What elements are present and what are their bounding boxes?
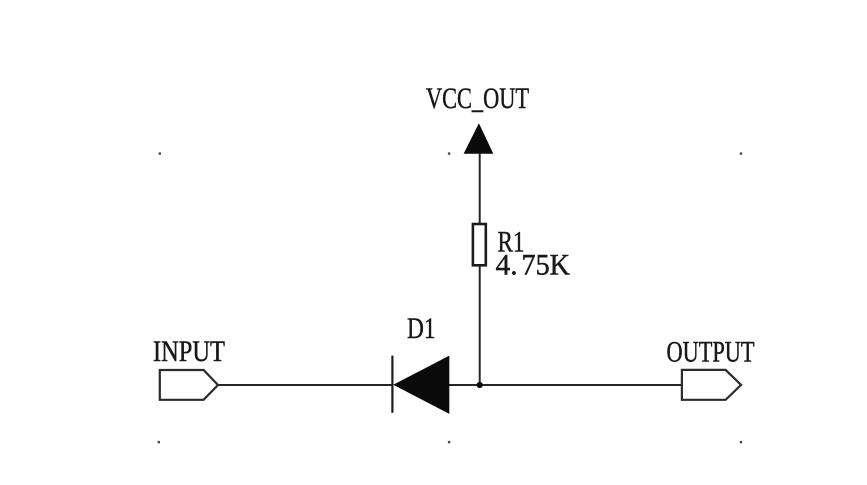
junction dot <box>477 382 483 388</box>
svg-text:INPUT: INPUT <box>153 336 225 368</box>
svg-text:OUTPUT: OUTPUT <box>667 337 755 369</box>
svg-text:75K: 75K <box>522 250 571 282</box>
power symbol VCC_OUT <box>464 123 494 154</box>
port OUTPUT <box>682 370 741 400</box>
resistor R1 <box>473 224 486 265</box>
wire INPUT to diode <box>218 384 393 386</box>
diode D1 <box>392 356 449 414</box>
wire R1 to junction <box>479 266 481 385</box>
wire diode to OUTPUT <box>449 384 682 386</box>
svg-text:D1: D1 <box>407 313 436 345</box>
wire VCC to R1 <box>479 154 481 224</box>
port INPUT <box>160 370 218 400</box>
svg-text:VCC_OUT: VCC_OUT <box>426 83 529 115</box>
svg-text:4.: 4. <box>496 250 518 282</box>
